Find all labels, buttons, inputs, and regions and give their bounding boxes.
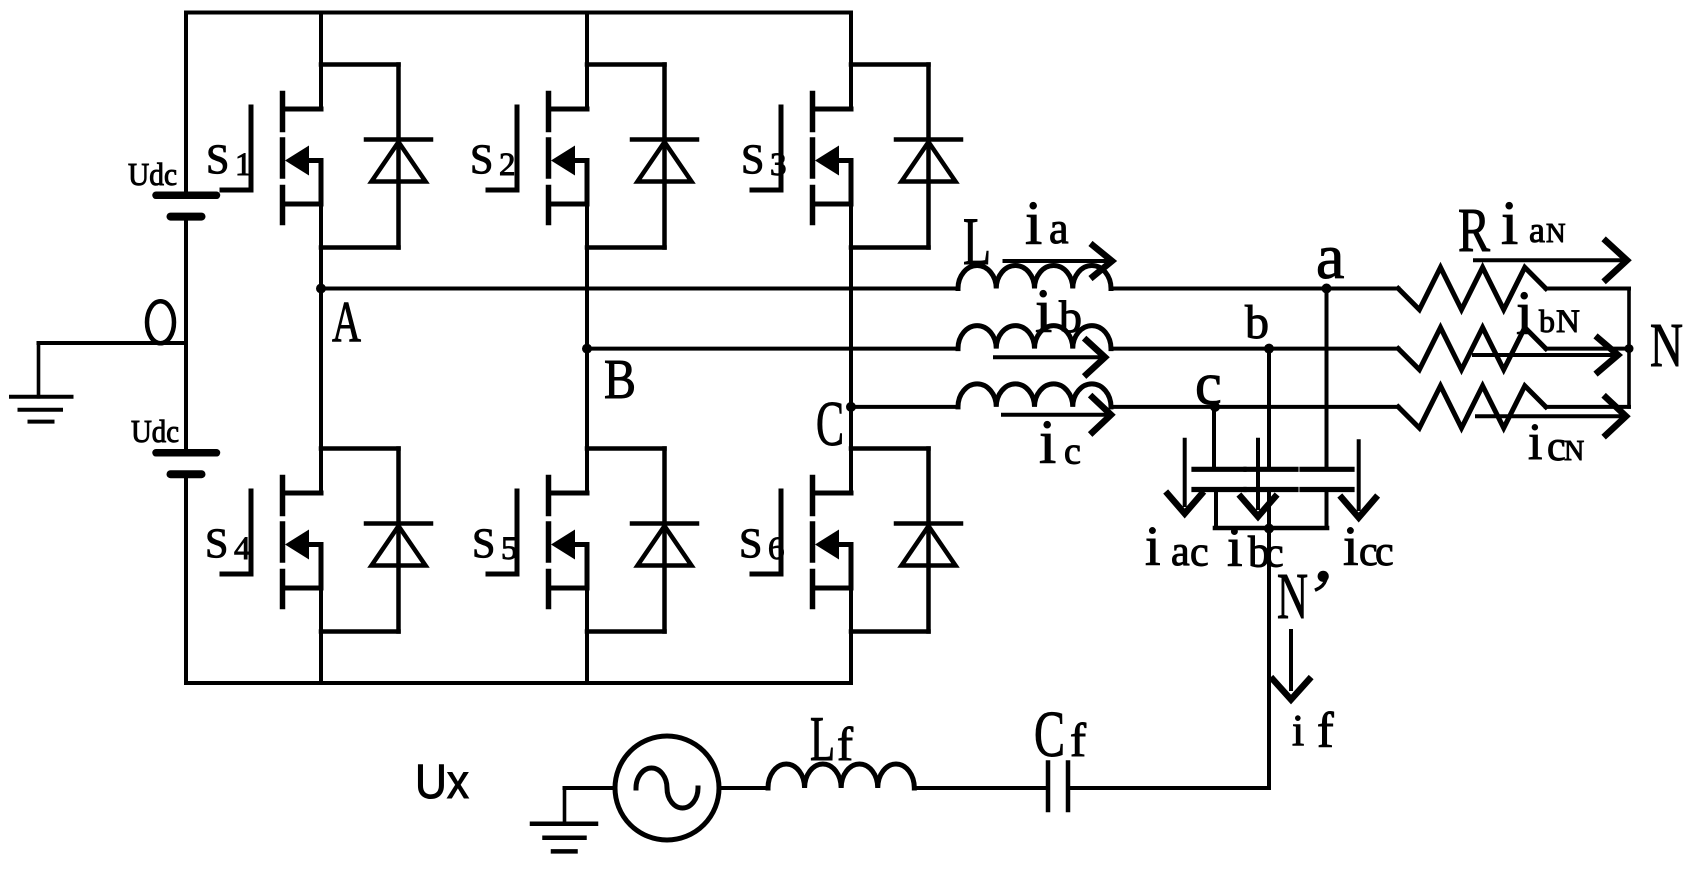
wire [319,289,323,494]
wire [1111,287,1398,291]
ground (left rail, node O) [11,343,72,422]
wire [851,245,929,250]
label icc [1343,516,1394,578]
wire [1212,407,1216,468]
svg-text:i: i [1292,706,1304,755]
label ibc [1227,517,1284,579]
svg-text:C: C [816,388,844,459]
wire [1267,490,1271,529]
svg-text:1: 1 [235,147,252,183]
label ic [1039,409,1081,477]
wire [849,588,853,683]
label S3 [741,138,787,184]
transistor S1 (upper A-leg MOSFET) [222,94,321,223]
wire [585,13,589,110]
node O label [147,301,174,343]
resistor R (phase c load) [1398,386,1546,428]
wire [849,13,853,110]
node b [1264,344,1274,354]
label Cf [1034,698,1086,771]
wire [587,62,665,67]
wire [1627,289,1631,407]
svg-text:i: i [1501,190,1518,258]
current arrow ibN [1474,338,1618,372]
wire [319,588,323,683]
current arrow ic [1003,397,1111,432]
wire [1070,786,1269,790]
wire [851,62,929,67]
svg-text:5: 5 [501,531,518,567]
current arrow if [1273,631,1309,700]
label S2 [470,138,516,184]
svg-text:i: i [1145,516,1161,578]
label ib [1035,278,1082,346]
node N [1625,344,1634,353]
label Ux [415,756,469,809]
battery Udc (upper) [156,195,217,216]
current arrow ia [1005,246,1113,277]
svg-text:C: C [1034,698,1065,771]
svg-text:i: i [1516,280,1533,348]
inductor L (phase b filter) [958,326,1111,349]
wire [1111,347,1398,351]
wire [1111,405,1398,409]
battery Udc (lower) [156,453,217,474]
resistor R (phase a load) [1398,267,1546,309]
label Udc (lower) [131,413,179,449]
transistor S5 (lower B-leg MOSFET) [488,478,587,607]
wire [319,13,323,110]
wire [1214,490,1218,529]
label S5 [472,522,518,568]
inductor L (phase a filter) [958,266,1111,289]
wire [585,349,589,493]
label R [1458,197,1490,265]
inductor Lf [768,764,914,788]
wire [1267,528,1271,788]
capacitor Cf [1048,763,1068,811]
ground (signal source) [532,788,596,851]
svg-text:b: b [1539,303,1555,339]
svg-text:c: c [1064,431,1081,473]
svg-text:3: 3 [770,147,787,183]
label Lf [810,703,853,774]
label S4 [205,522,251,568]
wire [565,786,616,790]
wire [1267,349,1271,468]
svg-text:L: L [963,203,991,279]
current arrow ibc [1241,440,1275,517]
label C [816,388,844,459]
svg-text:2: 2 [499,147,516,183]
wire [587,629,665,634]
wire [851,446,929,451]
transistor S3 (upper C-leg MOSFET) [752,94,851,223]
label Udc (upper) [128,156,177,192]
svg-text:a: a [1316,221,1344,292]
wire [851,405,958,409]
label a [1316,221,1344,292]
svg-text:B: B [604,349,636,411]
svg-text:N: N [1650,312,1683,380]
svg-text:i: i [1343,516,1359,578]
wire [1325,490,1329,529]
wire [585,588,589,683]
svg-text:N: N [1556,304,1580,340]
svg-text:6: 6 [768,531,785,567]
wire [321,287,958,291]
svg-text:c: c [1375,529,1394,575]
svg-text:Udc: Udc [131,413,179,449]
svg-text:S: S [472,522,495,568]
current arrow iac [1168,440,1202,514]
current arrow icN [1477,398,1626,435]
inductor L (phase c filter) [958,384,1111,407]
svg-text:f: f [837,718,853,771]
svg-text:L: L [810,703,835,774]
current arrow iaN [1475,241,1627,280]
svg-text:f: f [1070,714,1086,767]
wire [851,629,929,634]
wire [321,245,399,250]
diode D2 (antiparallel with S2) [632,65,697,248]
svg-text:i: i [1039,409,1056,477]
wire [1215,526,1327,531]
diode D1 (antiparallel with S1) [366,65,431,248]
wire [719,786,768,790]
transistor S2 (upper B-leg MOSFET) [488,94,587,223]
current arrow icc [1342,441,1376,517]
svg-text:S: S [470,138,493,184]
wire [184,13,188,684]
svg-text:c: c [1190,530,1209,576]
label L [963,203,991,279]
capacitor (phase b branch) [1246,469,1296,489]
diode D3 (antiparallel with S3) [896,65,961,248]
label iaN [1501,190,1566,258]
label ibN [1516,280,1580,348]
node A [316,284,326,294]
AC source Ux [615,736,719,840]
wire [849,204,853,407]
svg-text:i: i [1528,414,1542,471]
label N [1650,312,1683,380]
wire [186,11,851,15]
svg-text:S: S [741,138,764,184]
node C [846,402,856,412]
wire [587,245,665,250]
svg-text:A: A [332,290,361,355]
wire [321,62,399,67]
svg-text:4: 4 [234,531,251,567]
wire [319,204,323,289]
label if [1292,702,1334,758]
svg-text:Ux: Ux [415,756,469,809]
label S6 [739,522,785,568]
svg-text:N: N [1564,436,1584,467]
wire [1546,347,1629,351]
current arrow ib [995,340,1105,374]
label iac [1145,516,1209,578]
svg-text:b: b [1059,291,1082,342]
label b [1245,296,1269,349]
wire [914,786,1045,790]
svg-text:Udc: Udc [128,156,177,192]
transistor S4 (lower A-leg MOSFET) [222,478,321,607]
wire [186,681,851,685]
diode D5 (antiparallel with S5) [632,449,697,632]
diode D6 (antiparallel with S6) [896,449,961,632]
svg-text:f: f [1317,702,1334,758]
wire [585,204,589,349]
svg-text:c: c [1195,351,1222,417]
svg-text:N: N [1546,218,1566,248]
svg-text:R: R [1458,197,1490,265]
wire [1546,287,1629,291]
label B [604,349,636,411]
transistor S6 (lower C-leg MOSFET) [752,478,851,607]
capacitor (phase c branch) [1194,469,1244,489]
svg-text:S: S [206,138,229,184]
node a [1322,284,1332,294]
wire [587,446,665,451]
wire [321,446,399,451]
svg-text:i: i [1227,517,1243,579]
node B [582,344,592,354]
svg-text:b: b [1245,296,1269,349]
wire [1325,289,1329,468]
node N' [1264,524,1274,534]
wire [587,347,958,351]
svg-text:a: a [1171,529,1190,575]
wire [39,341,187,345]
svg-text:S: S [205,522,228,568]
node c [1210,402,1220,412]
wire [849,407,853,493]
resistor R (phase b load) [1398,328,1546,370]
svg-text:a: a [1529,210,1545,250]
svg-text:c: c [1547,424,1566,470]
svg-text:a: a [1049,204,1069,253]
label icN [1528,414,1584,471]
svg-text:i: i [1035,278,1052,346]
label S1 [206,138,252,184]
label A [332,290,361,355]
svg-text:i: i [1025,190,1042,258]
wire [321,629,399,634]
capacitor (phase a branch) [1302,469,1352,489]
label c [1195,351,1222,417]
label ia [1025,190,1069,258]
wire [1546,405,1629,409]
diode D4 (antiparallel with S4) [366,449,431,632]
svg-text:S: S [739,522,762,568]
label N' [1277,560,1329,633]
